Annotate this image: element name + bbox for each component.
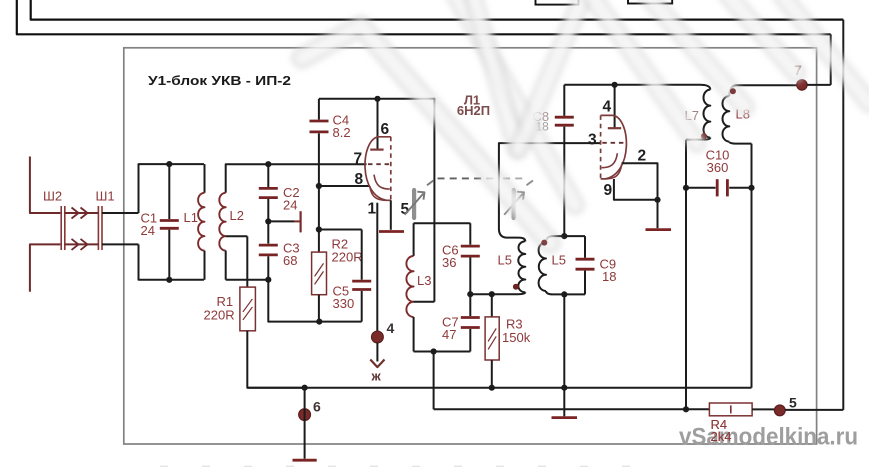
node L5 secondary bottom (561, 291, 567, 297)
svg-text:Ш2: Ш2 (43, 189, 62, 204)
varcap1 arrow (405, 192, 425, 215)
wire to ground below bus1 (563, 388, 565, 417)
svg-text:7: 7 (354, 151, 363, 168)
wire R1 bottom to bus (247, 331, 304, 388)
wire R1 top (246, 236, 248, 287)
polarity dot L5 secondary (541, 240, 547, 246)
bottom cropped text marks (160, 465, 660, 467)
wire node6 ground (304, 388, 306, 459)
node bus1 x564 (561, 385, 567, 391)
svg-text:150k: 150k (502, 330, 531, 345)
gang dashed link (438, 177, 497, 179)
upper block small box 1 (536, 0, 579, 5)
inductor L2 (219, 193, 225, 251)
upper block inner frame (bottom edge) (31, 0, 844, 20)
upper block outer frame (bottom-left corner) (17, 0, 831, 34)
svg-text:L5: L5 (498, 253, 512, 268)
capacitor C4 (318, 99, 320, 120)
resistor R4 (709, 403, 752, 416)
triode2 pin9 lead (614, 179, 658, 200)
wire L3 box to bus2 (433, 352, 435, 410)
node C3 bottom (265, 277, 271, 283)
wire Ш1 to C1 box top (102, 212, 139, 214)
polarity dot L8 redraw (730, 88, 736, 94)
triode1 pin1 lead (376, 203, 378, 331)
svg-text:L2: L2 (230, 208, 244, 223)
polarity dot L5 primary (513, 284, 519, 290)
triode1 envelope (365, 137, 391, 201)
triode2 pin2 lead (622, 163, 658, 200)
node bus1 node6 (302, 385, 308, 391)
inductor L8 (729, 85, 737, 96)
node C6/C7 (467, 291, 473, 297)
node R2 top (316, 226, 322, 232)
node grid line / C2 (265, 161, 271, 167)
node C10 right (748, 185, 754, 191)
node R3 bus1 (489, 385, 495, 391)
capacitor C1 (168, 164, 170, 219)
node plate 2 junction (612, 82, 618, 88)
polarity dot L7 (701, 133, 707, 139)
bus wire 1 (247, 387, 751, 389)
wire input box bottom-left (139, 244, 205, 279)
capacitor C3 (267, 221, 269, 243)
triode1 flat side dashed (390, 137, 392, 201)
wire node7 to frame (807, 84, 831, 86)
wire input box top-left (139, 164, 205, 213)
node 7 (797, 80, 807, 90)
connector chevrons top wire (72, 208, 88, 219)
capacitor C7 (469, 294, 471, 316)
wire R4 to node5 (752, 408, 774, 410)
varcap1 link dash (427, 179, 436, 186)
wire R3 top lead (491, 294, 493, 317)
svg-text:1: 1 (368, 201, 377, 218)
svg-text:360: 360 (707, 160, 729, 175)
svg-text:220R: 220R (204, 308, 235, 323)
L3 tap wire (414, 301, 435, 303)
svg-text:8.2: 8.2 (333, 125, 351, 140)
svg-text:6Н2П: 6Н2П (457, 103, 490, 118)
svg-text:ж: ж (371, 369, 382, 384)
wire pin3 horizontal (499, 143, 601, 228)
triode1 inner arc (374, 175, 390, 190)
arrowhead (370, 360, 384, 368)
resistor R2 (318, 230, 320, 253)
У1 block enclosure frame (124, 48, 817, 444)
node grid junction (561, 233, 567, 239)
svg-text:24: 24 (141, 223, 155, 238)
connector Ш1 contact bars (97, 206, 99, 250)
wire C6/C7 to L5 (470, 293, 512, 295)
wire top horizontal to L3 tap (319, 99, 435, 302)
resistor R1 (240, 287, 256, 331)
node 5 (774, 405, 785, 416)
svg-text:330: 330 (333, 296, 355, 311)
wire L5 bottom to bus1 (563, 294, 565, 387)
svg-text:8: 8 (355, 171, 364, 188)
svg-text:3: 3 (588, 132, 597, 149)
triode2 group (601, 115, 627, 179)
triode1 cathode arc (370, 186, 387, 200)
svg-text:36: 36 (442, 255, 456, 270)
capacitor C8 branch (563, 85, 565, 116)
wire cathode t2 to ground (657, 200, 659, 228)
inductor L7 (700, 85, 710, 90)
varcap2 link dash (527, 179, 536, 186)
antenna lead top (Ш2) (30, 157, 61, 214)
node C1 bottom (166, 277, 172, 283)
svg-text:2k4: 2k4 (711, 429, 732, 444)
svg-text:220R: 220R (332, 250, 363, 265)
ground bar node6 (293, 459, 317, 462)
svg-text:18: 18 (602, 269, 616, 284)
upper block small box 2 (628, 0, 672, 4)
svg-text:У1-блок УКВ - ИП-2: У1-блок УКВ - ИП-2 (148, 73, 291, 88)
watermark ribbons (302, 0, 869, 243)
triode1 grid dashes pin7 (368, 163, 391, 165)
svg-text:L1: L1 (184, 210, 198, 225)
svg-text:6: 6 (313, 399, 321, 415)
inductor L3 (413, 223, 415, 256)
svg-text:L5: L5 (552, 253, 566, 268)
node pin8/C4 (316, 183, 322, 189)
svg-text:2: 2 (638, 148, 647, 165)
antenna lead bottom (Ш2) (30, 244, 61, 291)
wire L2 tap to R1 (226, 235, 248, 237)
svg-text:24: 24 (283, 198, 297, 213)
inductor L5 primary (499, 229, 525, 242)
shield bar (300, 211, 302, 232)
wire L2 bottom (226, 279, 269, 281)
wire R3 bottom (491, 360, 493, 388)
triode1 plate bar (370, 149, 383, 151)
node pin2/pin9 (654, 197, 660, 203)
capacitor C10 (686, 187, 716, 189)
wire C3 bottom down to C5 return (268, 280, 361, 322)
svg-text:4: 4 (603, 99, 612, 116)
triode1 plate lead (377, 99, 379, 150)
inductor L1 (204, 164, 206, 193)
wire C4 to R2 (318, 186, 320, 230)
wire pin 8 (319, 185, 370, 187)
svg-text:4: 4 (387, 320, 395, 336)
node L3 box bottom (431, 348, 437, 354)
node R3 top (489, 291, 495, 297)
svg-text:vSamodelkina.ru: vSamodelkina.ru (679, 424, 858, 451)
wire C10 right leg (751, 144, 753, 388)
connector chevrons bottom wire (72, 239, 88, 250)
node 6 (299, 409, 311, 421)
stub to shield bar (268, 220, 294, 222)
connector wire bottom segment (65, 243, 99, 245)
polarity dot L8 (730, 88, 736, 94)
connector Ш2 contact bars (60, 206, 62, 250)
inductor L5 secondary (546, 236, 585, 242)
node plate 1 junction (374, 96, 380, 102)
arrow down from node 4 (376, 343, 378, 362)
ground bar cathode t2 (646, 228, 672, 231)
varcap1 rotor bar (412, 190, 416, 218)
node C1 top (166, 161, 172, 167)
wire L8 top to node 7 (737, 84, 797, 86)
connector wire top segment (65, 212, 99, 214)
capacitor C6 (469, 223, 471, 245)
L3 box top (414, 222, 471, 224)
polarity dot L5 secondary redraw (541, 240, 547, 246)
triode1 pin5 lead (390, 200, 392, 230)
ground bar bus1 (552, 416, 578, 419)
node 4 (372, 331, 384, 343)
varcap2 rotor bar (511, 190, 515, 218)
wire L2 top to grid line (226, 164, 367, 193)
node C10 left (683, 185, 689, 191)
resistor R3 (485, 317, 499, 360)
capacitor C5 (361, 230, 363, 280)
node bus2 C10 (683, 406, 689, 412)
svg-text:6: 6 (381, 121, 390, 138)
node R2/C5 bottom (316, 319, 322, 325)
gang dashed link washed (503, 177, 523, 179)
bus wire 2 (434, 408, 710, 410)
wire node5 to frame (785, 409, 843, 411)
node C2-C3 stub (265, 218, 271, 224)
svg-text:47: 47 (442, 327, 456, 342)
svg-text:5: 5 (789, 395, 797, 411)
capacitor C2 (267, 164, 269, 187)
L3 box bottom (414, 351, 471, 353)
svg-text:Ш1: Ш1 (96, 189, 115, 204)
capacitor C9 (584, 236, 586, 258)
varcap2 arrow (504, 192, 524, 215)
wire anode rail t2 (564, 84, 700, 86)
wire Ш1 to C1 box bottom (102, 243, 139, 245)
ground bar cathode t1 (379, 230, 404, 233)
svg-text:68: 68 (283, 253, 297, 268)
triode2 plate lead (614, 85, 616, 129)
svg-text:L3: L3 (417, 273, 431, 288)
wire C10 left leg (685, 140, 687, 410)
wire R2 top to C5 (319, 229, 362, 231)
svg-text:9: 9 (604, 182, 613, 199)
